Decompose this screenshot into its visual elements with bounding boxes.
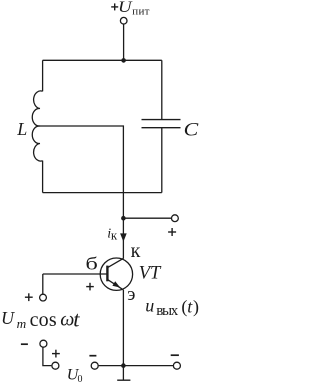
svg-text:пит: пит <box>132 5 149 17</box>
svg-text:к: к <box>111 228 118 243</box>
junction collector node <box>121 216 126 221</box>
terminal Um minus <box>40 340 47 347</box>
arrow ik current <box>120 233 127 241</box>
label +Upit plus sign <box>111 3 118 10</box>
label + output <box>168 228 176 236</box>
inductor L <box>32 91 42 161</box>
svg-text:э: э <box>127 284 135 305</box>
svg-text:VT: VT <box>139 263 162 283</box>
wire base <box>43 273 107 275</box>
junction ground node <box>121 363 126 368</box>
wire input vertical <box>42 274 44 294</box>
wire supply <box>123 24 125 60</box>
transistor collector lead <box>107 258 123 267</box>
terminal U0 plus <box>52 362 59 369</box>
svg-text:0: 0 <box>78 374 83 384</box>
terminal +Upit <box>120 17 127 24</box>
label + U0 <box>52 350 60 358</box>
wire Um to U0 <box>43 347 52 365</box>
wire tap from inductor midpoint <box>40 126 124 218</box>
svg-text:вых: вых <box>156 303 179 319</box>
svg-text:): ) <box>193 296 199 317</box>
svg-text:u: u <box>145 296 154 316</box>
svg-text:t: t <box>73 307 80 332</box>
terminal U0 minus <box>91 362 98 369</box>
label + base <box>86 283 94 291</box>
wire bottom common <box>99 365 173 367</box>
label minus right <box>171 354 179 356</box>
transistor VT circle <box>100 258 132 290</box>
transistor base bar <box>106 266 108 282</box>
svg-text:U: U <box>1 308 15 328</box>
svg-text:к: к <box>131 240 141 262</box>
terminal common right <box>173 362 180 369</box>
label minus U0 <box>89 355 96 357</box>
svg-text:cos: cos <box>30 309 57 331</box>
terminal input <box>40 294 47 301</box>
terminal output plus <box>172 215 179 222</box>
transistor emitter arrow <box>112 281 120 287</box>
wire tank bottom <box>43 192 162 194</box>
wire emitter <box>122 290 124 366</box>
svg-text:L: L <box>16 119 27 139</box>
wire tank right upper <box>161 60 163 119</box>
svg-text:б: б <box>85 254 98 274</box>
svg-text:m: m <box>17 316 27 331</box>
transistor emitter lead <box>107 279 123 290</box>
wire tank top <box>43 59 162 61</box>
wire tank left lower <box>42 161 44 193</box>
ground <box>117 366 130 381</box>
wire to output terminal <box>123 217 171 219</box>
junction top node <box>121 58 126 63</box>
wire tank left upper <box>42 60 44 91</box>
capacitor C <box>142 120 181 128</box>
label minus Um <box>21 343 28 345</box>
label + input <box>25 293 33 301</box>
wire tank right lower <box>161 128 163 193</box>
svg-text:C: C <box>184 119 199 140</box>
wire collector <box>122 218 124 258</box>
